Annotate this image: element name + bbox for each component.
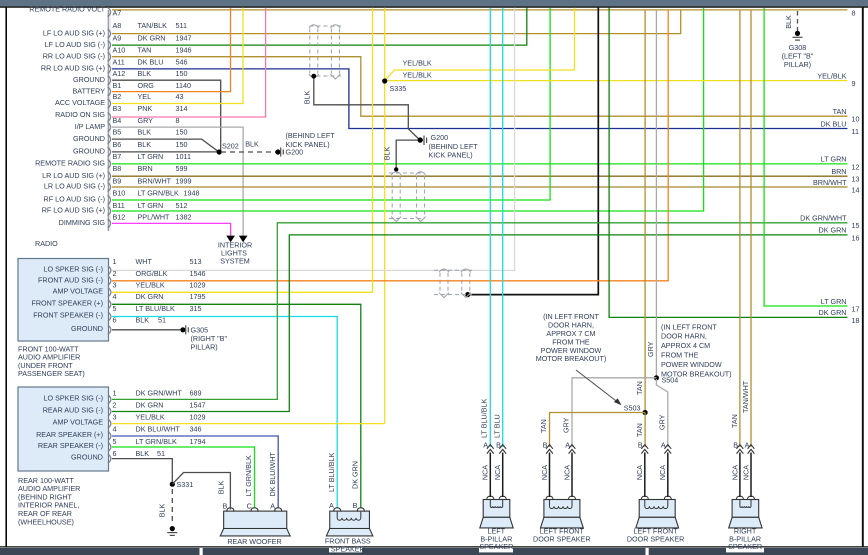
splice S335 dot [382,78,387,83]
wire front pin3 YEL/BLK 1029 riser [112,8,373,293]
svg-text:RADIO ON SIG: RADIO ON SIG [55,110,105,119]
svg-text:S335: S335 [390,84,407,93]
svg-text:DK BLU: DK BLU [821,119,847,128]
speaker left front door 2 [639,500,675,518]
svg-text:YEL: YEL [138,92,152,101]
wire front pin6 BLK 51 to G305 [112,329,180,331]
wire A9 DK GRN 1947 [112,8,527,46]
svg-text:TAN: TAN [635,423,644,437]
svg-text:BLK: BLK [158,504,167,518]
page top border [0,6,868,8]
wire B12 PPL/WHT 1382 to interior lights [112,223,231,236]
svg-text:BLK: BLK [138,127,152,136]
page right border [862,7,864,547]
wire B10 LT GRN/BLK 1948 riser [112,8,550,200]
svg-text:4: 4 [113,292,117,301]
svg-text:LT GRN: LT GRN [138,152,164,161]
svg-text:GROUND: GROUND [73,134,105,143]
svg-text:REAR WOOFER: REAR WOOFER [227,537,281,546]
svg-text:GRY: GRY [646,341,655,357]
svg-text:S202: S202 [222,141,239,150]
wire rear pin2 DK GRN 1547 to wire 16 [112,235,848,412]
wire front pin2 ORG/BLK 1546 riser [112,10,668,281]
svg-text:1547: 1547 [190,401,206,410]
speaker lead wire [489,453,491,498]
ground G200 right [418,137,423,142]
svg-text:BLK: BLK [303,91,312,105]
svg-text:LT BLU/BLK: LT BLU/BLK [136,304,175,313]
svg-text:LT GRN: LT GRN [821,155,847,164]
svg-text:C: C [247,501,252,510]
svg-text:LT BLU/BLK: LT BLU/BLK [327,453,336,492]
svg-text:REMOTE RADIO SIG: REMOTE RADIO SIG [35,159,105,168]
wire GRY riser to S504 [655,10,657,378]
svg-text:BRN: BRN [831,167,846,176]
svg-text:PNK: PNK [138,104,153,113]
svg-text:689: 689 [190,388,202,397]
svg-text:BLK: BLK [217,481,226,495]
svg-text:B9: B9 [113,176,122,185]
svg-text:DK GRN: DK GRN [136,401,164,410]
svg-text:AMP VOLTAGE: AMP VOLTAGE [53,286,104,295]
svg-text:DK BLU/WHT: DK BLU/WHT [268,452,277,497]
svg-text:11: 11 [852,127,859,136]
svg-text:LO SPKER SIG (-): LO SPKER SIG (-) [43,393,103,402]
speaker lead wire [502,453,504,498]
svg-text:B: B [733,441,738,450]
svg-text:150: 150 [176,140,188,149]
svg-text:5: 5 [113,437,117,446]
ground G308 dashed drop [797,11,799,31]
svg-text:DK GRN/WHT: DK GRN/WHT [136,388,183,397]
svg-text:YEL/BLK: YEL/BLK [403,58,432,67]
svg-text:LT GRN/BLK: LT GRN/BLK [138,189,179,198]
rear amplifier box [18,387,109,471]
svg-text:LR LO AUD SIG (-): LR LO AUD SIG (-) [44,182,105,191]
svg-text:A: A [270,501,275,510]
wire A8 TAN/BLK 511 [112,10,681,34]
svg-text:BRN/WHT: BRN/WHT [813,178,847,187]
svg-text:(WHEELHOUSE): (WHEELHOUSE) [18,517,74,526]
inline connector C1 [310,26,342,76]
svg-text:(BEHIND LEFT: (BEHIND LEFT [429,142,479,151]
svg-text:BLK: BLK [383,147,392,161]
svg-text:43: 43 [176,92,184,101]
svg-text:B: B [543,441,548,450]
speaker lead wire [571,453,573,498]
svg-text:16: 16 [852,233,860,242]
svg-text:3: 3 [113,413,117,422]
svg-text:BATTERY: BATTERY [73,86,106,95]
svg-text:4: 4 [113,425,117,434]
wire B7 LT GRN 1011 to wire 12 [112,163,848,165]
svg-text:(RIGHT "B": (RIGHT "B" [191,334,228,343]
svg-text:1: 1 [113,257,117,266]
wire B2 YEL 43 riser [112,8,243,104]
wire 18 DK GRN from top [609,8,847,318]
svg-text:GRY: GRY [562,417,571,433]
wire BLK G200 to C2 [396,140,417,169]
svg-text:51: 51 [157,449,165,458]
svg-text:RF LO AUD SIG (-): RF LO AUD SIG (-) [44,195,106,204]
wire BLK dashed S202 to G200 [221,151,276,153]
svg-text:SPEAKER: SPEAKER [728,542,762,551]
svg-text:KICK PANEL): KICK PANEL) [429,151,473,160]
svg-text:3: 3 [113,281,117,290]
svg-text:AMP VOLTAGE: AMP VOLTAGE [53,418,104,427]
svg-text:B11: B11 [113,201,125,210]
svg-text:314: 314 [176,104,188,113]
wire B11 LT GRN 512 riser [112,8,704,211]
svg-text:MOTOR BREAKOUT): MOTOR BREAKOUT) [661,369,732,378]
svg-text:TAN: TAN [635,381,644,395]
wire YEL/BLK wire 9 [385,80,848,82]
bottom bar [0,548,868,555]
svg-text:B7: B7 [113,152,122,161]
wire A10 TAN 1946 to wire 10 [112,57,848,116]
svg-text:A: A [565,441,570,450]
svg-text:REAR SPEAKER (-): REAR SPEAKER (-) [38,441,103,450]
speaker lead wire [549,453,551,498]
svg-text:LT GRN/BLK: LT GRN/BLK [244,455,253,496]
svg-text:B: B [638,441,643,450]
svg-text:YEL/BLK: YEL/BLK [136,413,165,422]
arrow note to S503 [576,370,620,404]
wire B3 PNK 314 riser [112,8,266,117]
svg-text:A10: A10 [113,45,126,54]
svg-text:LO SPKER SIG (-): LO SPKER SIG (-) [43,264,103,273]
svg-text:FRONT SPEAKER (+): FRONT SPEAKER (+) [31,298,103,307]
svg-text:PILLAR): PILLAR) [784,60,811,69]
svg-text:1946: 1946 [176,45,192,54]
radio connector edge [107,10,109,231]
svg-text:FRONT AUD SIG (-): FRONT AUD SIG (-) [38,276,103,285]
svg-text:8: 8 [852,8,856,17]
svg-text:DK GRN: DK GRN [819,308,847,317]
svg-text:NCA: NCA [741,465,750,480]
speaker left front door 1 [544,500,580,518]
svg-text:1947: 1947 [176,33,192,42]
svg-text:REAR SPEAKER (+): REAR SPEAKER (+) [36,430,103,439]
svg-text:14: 14 [852,185,860,194]
svg-text:346: 346 [190,425,202,434]
svg-text:B12: B12 [113,213,126,222]
wire rear pin4 DK BLU/WHT 346 to woofer A [112,436,278,509]
svg-text:RR LO AUD SIG (+): RR LO AUD SIG (+) [41,64,105,73]
splice S504 [654,375,659,380]
svg-text:1795: 1795 [190,292,206,301]
svg-text:LR LO AUD SIG (+): LR LO AUD SIG (+) [42,171,105,180]
svg-text:A9: A9 [113,33,122,42]
svg-text:15: 15 [852,221,860,230]
svg-text:1029: 1029 [190,413,206,422]
speaker front bass [330,511,370,528]
svg-text:LT GRN: LT GRN [138,201,164,210]
splice S335 YEL/BLK riser [384,8,386,424]
wire TAN riser right bpillar B [739,10,741,447]
front amplifier box [18,259,109,342]
svg-text:9: 9 [852,79,856,88]
wire YEL/BLK upper branch to top [385,8,575,81]
svg-text:RF LO AUD SIG (+): RF LO AUD SIG (+) [42,206,105,215]
speaker left b-pillar [483,500,510,518]
svg-text:1: 1 [113,388,117,397]
svg-text:599: 599 [176,164,188,173]
svg-text:LT GRN: LT GRN [821,297,847,306]
svg-text:GROUND: GROUND [73,146,105,155]
wire A7 remote-radio-volt TAN top run to 8 [112,9,848,11]
svg-text:B1: B1 [113,81,122,90]
ground below S331 [170,526,175,531]
wire GRY S504 to door1 A [572,378,656,447]
svg-text:BRN: BRN [138,164,153,173]
svg-text:KICK PANEL): KICK PANEL) [286,140,330,149]
svg-text:1011: 1011 [176,152,191,161]
svg-text:BRN/WHT: BRN/WHT [138,176,172,185]
svg-text:(IN LEFT FRONT: (IN LEFT FRONT [661,322,717,331]
svg-text:RADIO: RADIO [35,239,58,248]
svg-text:A: A [661,441,666,450]
svg-text:ACC VOLTAGE: ACC VOLTAGE [55,98,105,107]
svg-text:NCA: NCA [658,465,667,480]
svg-text:FRONT SPEAKER (-): FRONT SPEAKER (-) [33,311,103,320]
svg-text:18: 18 [852,316,860,325]
svg-text:DK GRN: DK GRN [351,461,360,489]
speaker rear woofer [224,511,287,528]
wire B5 BLK 150 to S202 [112,139,219,152]
svg-text:A: A [329,501,334,510]
svg-text:512: 512 [176,201,188,210]
svg-text:NCA: NCA [562,465,571,480]
wire 17 LT GRN from top [764,8,847,306]
svg-text:A: A [483,441,488,450]
svg-text:TAN/BLK: TAN/BLK [138,21,168,30]
speaker lead wire [750,453,752,498]
wire BLK from C1 to G200 right [314,76,420,140]
wire TAN S503 to door1 B [550,413,646,448]
svg-text:BLK: BLK [138,140,152,149]
inline connector C3 [434,270,472,294]
wire rear pin5 LT GRN/BLK 1794 to woofer C [112,447,255,509]
wire TAN S503 to door2 B [644,413,646,448]
svg-text:17: 17 [852,304,860,313]
rear amp pin arcs [108,395,111,463]
svg-text:DK GRN/WHT: DK GRN/WHT [800,214,847,223]
svg-text:DK BLU/WHT: DK BLU/WHT [136,425,181,434]
junction dot on C3 [465,292,470,297]
svg-text:YEL/BLK: YEL/BLK [817,71,846,80]
svg-text:NCA: NCA [635,465,644,480]
wire A12 BLK 150 to S202 [112,80,221,152]
svg-text:DOOR SPEAKER: DOOR SPEAKER [533,534,591,543]
svg-text:YEL/BLK: YEL/BLK [403,71,432,80]
svg-text:PILLAR): PILLAR) [191,343,218,352]
svg-text:FROM THE: FROM THE [661,351,699,360]
wire TAN/WHT riser right bpillar A [750,10,752,447]
svg-text:12: 12 [852,162,860,171]
svg-text:A12: A12 [113,69,126,78]
svg-text:DOOR HARN,: DOOR HARN, [661,332,707,341]
svg-text:B8: B8 [113,164,122,173]
splice S503 [643,410,648,415]
top toolbar bar [0,0,868,6]
svg-text:TAN: TAN [138,45,152,54]
wire front pin5 LT BLU/BLK 315 to front bass A [112,317,337,509]
svg-text:2: 2 [113,401,117,410]
svg-text:SPEAKER: SPEAKER [479,542,513,551]
svg-text:B: B [353,501,358,510]
wire B1 ORG 1140 riser [112,8,231,92]
speaker lead wire [644,453,646,498]
ground G305 [180,327,185,332]
svg-text:1999: 1999 [176,176,192,185]
svg-text:GROUND: GROUND [73,75,105,84]
svg-text:ORG: ORG [138,81,155,90]
wire GRY S504 to door2 A [656,379,667,447]
svg-text:TAN: TAN [539,419,548,433]
wire rear pin3 YEL/BLK 1029 to S335 riser [112,423,385,425]
svg-text:S331: S331 [177,480,194,489]
svg-text:10: 10 [852,115,860,124]
svg-text:(BEHIND LEFT: (BEHIND LEFT [286,131,336,140]
svg-text:GRY: GRY [657,414,666,430]
svg-text:6: 6 [113,449,117,458]
svg-text:REMOTE RADIO VOLT: REMOTE RADIO VOLT [29,5,105,14]
svg-text:YEL/BLK: YEL/BLK [136,281,165,290]
speaker right b-pillar [732,500,759,518]
svg-text:BLK: BLK [784,15,793,29]
svg-text:G305: G305 [191,325,209,334]
svg-text:PASSENGER SEAT): PASSENGER SEAT) [18,369,85,378]
svg-text:A8: A8 [113,21,122,30]
splice S202 [217,149,222,154]
svg-text:DK BLU: DK BLU [138,58,164,67]
svg-text:DIMMING SIG: DIMMING SIG [59,218,106,227]
svg-text:5: 5 [113,304,117,313]
page bottom border [0,546,868,548]
svg-text:NCA: NCA [493,465,502,480]
svg-text:546: 546 [176,58,188,67]
svg-text:LT BLU/BLK: LT BLU/BLK [480,399,489,438]
wire rear pin1 DK GRN/WHT 689 to wire 15 [112,223,848,400]
svg-text:NCA: NCA [730,465,739,480]
svg-text:SYSTEM: SYSTEM [220,257,250,266]
svg-text:1029: 1029 [190,281,206,290]
wire A11 DK BLU 546 to wire 11 [112,69,848,129]
svg-text:RR LO AUD SIG (-): RR LO AUD SIG (-) [43,51,105,60]
wire front pin4 DK GRN 1795 to front bass B [112,304,361,508]
svg-text:TAN: TAN [730,414,739,428]
svg-text:LT GRN/BLK: LT GRN/BLK [136,437,177,446]
svg-text:DK GRN: DK GRN [138,33,166,42]
wire BLK woofer B to S331 [172,473,230,510]
svg-text:A: A [745,441,750,450]
svg-text:B6: B6 [113,140,122,149]
svg-text:GROUND: GROUND [71,453,103,462]
ground G200 left [275,149,280,154]
svg-text:B: B [496,441,501,450]
svg-text:DK GRN: DK GRN [819,226,847,235]
svg-text:LF LO AUD SIG (-): LF LO AUD SIG (-) [45,40,105,49]
wire B9 BRN/WHT 1999 to wire 14 [112,186,848,188]
svg-text:B5: B5 [113,127,122,136]
svg-text:B3: B3 [113,104,122,113]
svg-text:I/P LAMP: I/P LAMP [75,122,105,131]
svg-text:BLK: BLK [138,69,152,78]
svg-text:DOOR SPEAKER: DOOR SPEAKER [627,534,685,543]
splice S331 [170,482,175,487]
svg-text:WHT: WHT [136,257,153,266]
svg-text:513: 513 [190,257,202,266]
svg-text:1140: 1140 [176,81,191,90]
svg-text:B: B [223,501,228,510]
svg-text:PPL/WHT: PPL/WHT [138,213,171,222]
wire LT BLU riser left bpillar B [502,8,504,447]
wire B8 BRN 599 to wire 13 [112,175,848,177]
front amp pin arcs [108,266,111,335]
svg-text:B10: B10 [113,189,126,198]
svg-text:BLK: BLK [136,449,150,458]
svg-text:TAN/WHT: TAN/WHT [741,380,750,413]
svg-text:S503: S503 [624,404,641,413]
wire B4 GRY 8 to interior lights [112,127,243,236]
svg-text:TAN: TAN [833,107,847,116]
svg-text:REAR AUD SIG (-): REAR AUD SIG (-) [43,405,103,414]
svg-text:511: 511 [176,21,187,30]
svg-text:SPEAKER: SPEAKER [331,545,365,554]
wire BLK dashed S331 to ground [171,489,173,524]
svg-text:1948: 1948 [184,189,200,198]
speaker lead wire [739,453,741,498]
svg-text:13: 13 [852,175,860,184]
inline connector C2 [389,173,425,219]
svg-text:150: 150 [176,127,188,136]
svg-text:A11: A11 [113,58,125,67]
svg-text:BLK: BLK [245,140,259,149]
svg-text:1382: 1382 [176,213,192,222]
arrow interior lights left [226,236,235,243]
page left border [5,7,7,547]
wire LT BLU/BLK riser left bpillar A [489,8,491,447]
svg-text:315: 315 [190,304,202,313]
wire front pin1 WHT 513 riser [112,8,515,271]
svg-text:NCA: NCA [540,465,549,480]
svg-text:LT BLU: LT BLU [492,414,501,438]
svg-text:APPROX 4 CM: APPROX 4 CM [661,341,710,350]
svg-text:B2: B2 [113,92,122,101]
svg-text:GROUND: GROUND [71,324,103,333]
svg-text:LF LO AUD SIG (+): LF LO AUD SIG (+) [43,28,105,37]
svg-text:POWER WINDOW: POWER WINDOW [661,360,722,369]
svg-text:150: 150 [176,69,188,78]
svg-text:NCA: NCA [481,465,490,480]
wire B6 BLK 150 to S202 [112,151,219,153]
speaker lead wire [667,453,669,498]
radio pin arcs [108,7,111,228]
svg-text:DK GRN: DK GRN [136,292,164,301]
wire BLK heavy from connector to top [468,8,599,295]
svg-text:1794: 1794 [190,437,206,446]
svg-text:MOTOR BREAKOUT): MOTOR BREAKOUT) [536,354,607,363]
wire rear pin6 BLK 51 to S331 [112,459,172,482]
wire TAN riser to S503 [644,10,646,413]
arrow interior lights right [239,236,248,243]
